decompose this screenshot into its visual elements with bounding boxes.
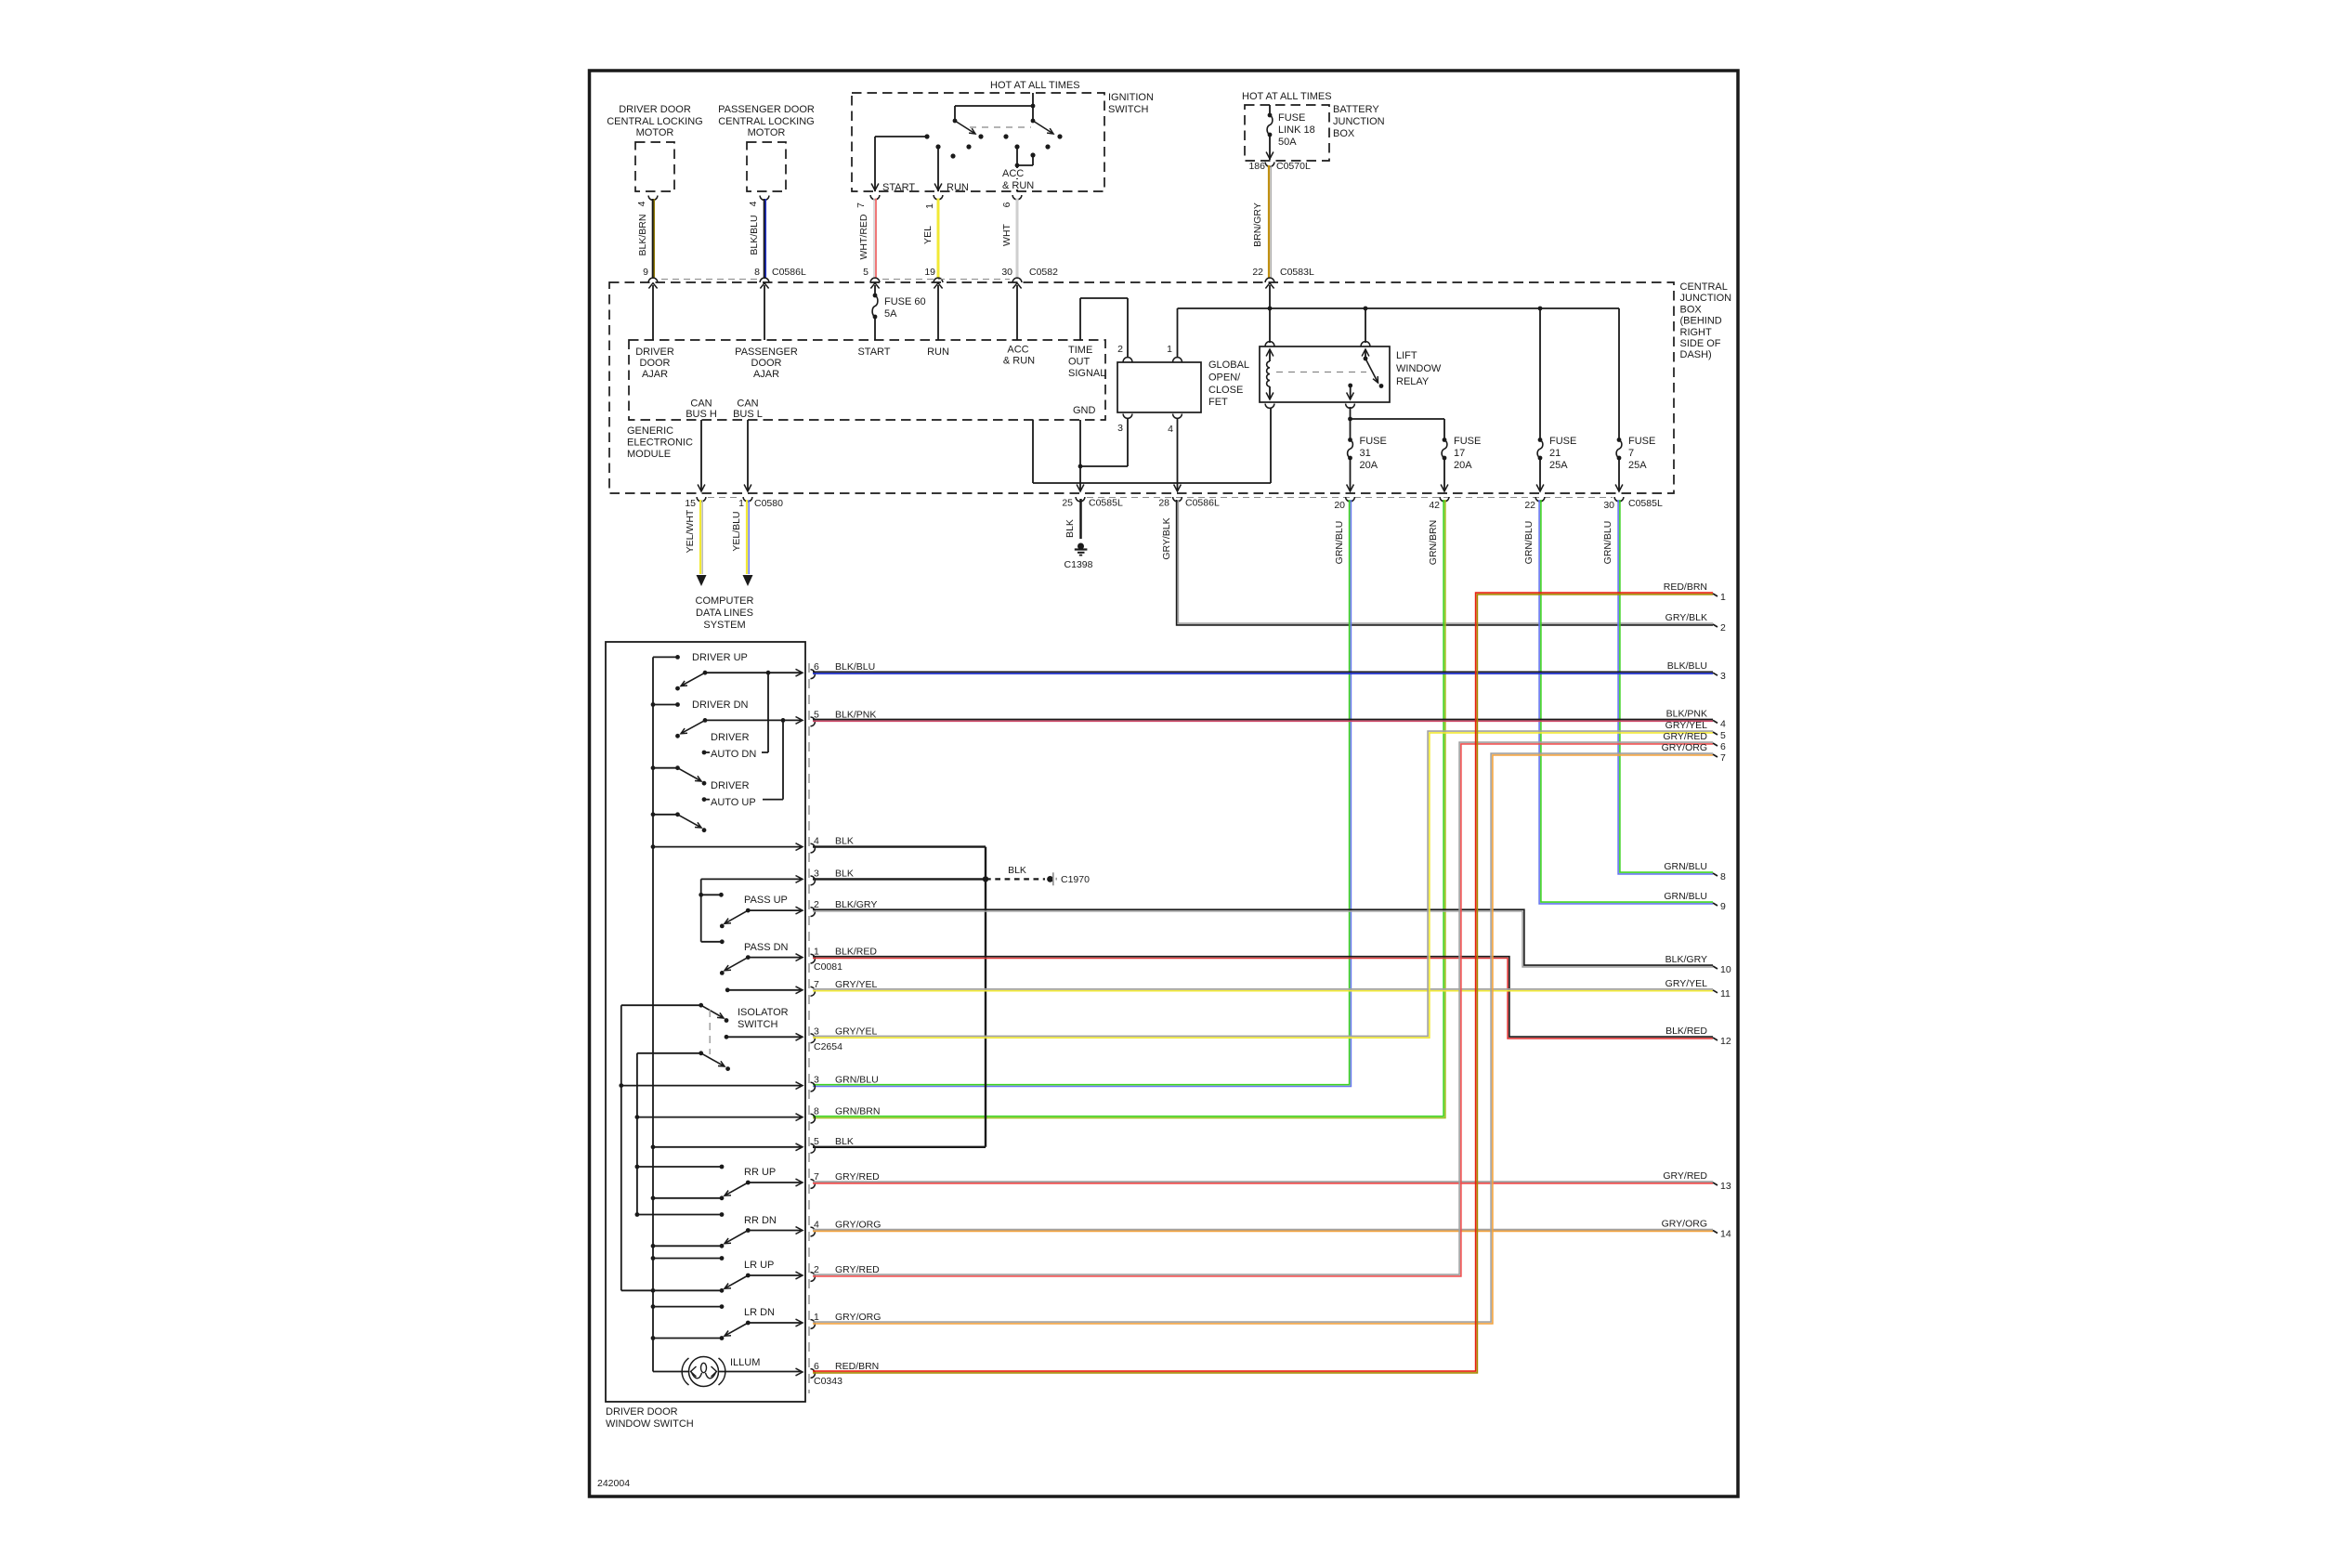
svg-text:AJAR: AJAR [642,369,668,380]
svg-text:PASSENGER: PASSENGER [735,346,798,358]
svg-text:GRY/RED: GRY/RED [835,1264,880,1275]
svg-text:FUSE: FUSE [1628,436,1655,447]
svg-text:8: 8 [1720,871,1726,882]
svg-text:JUNCTION: JUNCTION [1333,116,1385,127]
svg-text:C0585L: C0585L [1628,498,1663,509]
bus A [652,657,654,1371]
wire acc&run [1016,285,1018,340]
wire FET pin1 from bus [1177,308,1179,357]
svg-text:COMPUTER: COMPUTER [696,595,754,607]
mechanical link dashes [970,126,1031,128]
svg-text:GRN/BLU: GRN/BLU [1664,891,1707,902]
svg-text:ACC: ACC [1002,168,1024,179]
svg-text:10: 10 [1720,964,1731,975]
svg-text:9: 9 [643,267,648,278]
central junction box outline [609,282,1674,493]
wire relay coil return to GEM [1270,408,1272,484]
svg-text:BLK/RED: BLK/RED [835,947,877,958]
CJB bottom pin 30 connector [1614,497,1624,502]
svg-text:2: 2 [1720,622,1726,634]
svg-text:DRIVER: DRIVER [711,732,750,743]
svg-text:OPEN/: OPEN/ [1208,372,1241,384]
output 3 GRY/YEL C2654 [725,1035,729,1039]
svg-text:C1398: C1398 [1064,559,1093,570]
svg-text:4: 4 [814,836,819,847]
wire BRN/GRY into bus and relay coil [1269,285,1271,343]
switch output pin 2 BLK/GRY [811,908,816,917]
svg-text:14: 14 [1720,1229,1731,1240]
svg-text:GRY/YEL: GRY/YEL [835,979,877,990]
svg-text:DATA LINES: DATA LINES [696,608,753,619]
svg-text:BLK: BLK [1064,519,1076,538]
CJB top pin 22 connector [1265,278,1274,282]
svg-text:CENTRAL: CENTRAL [1680,281,1728,293]
svg-text:BLK/BRN: BLK/BRN [637,215,648,256]
svg-text:6: 6 [814,1361,819,1372]
svg-text:CAN: CAN [690,399,712,410]
wire YEL/WHT [699,500,701,574]
svg-text:LIFT: LIFT [1396,350,1417,361]
svg-text:DOOR: DOOR [640,358,671,369]
svg-text:GRY/ORG: GRY/ORG [1662,742,1707,753]
svg-text:4: 4 [1168,424,1173,435]
svg-text:BUS L: BUS L [733,409,763,420]
CJB bottom pin 20 connector [1346,497,1355,502]
svg-text:FUSE: FUSE [1278,112,1305,124]
svg-text:50A: 50A [1278,137,1297,148]
CJB top pin 19 connector [934,278,943,282]
wire BLK/BRN pin4->pin9 [652,199,655,278]
svg-text:31: 31 [1360,448,1371,459]
svg-text:FET: FET [1208,397,1228,408]
svg-text:C0585L: C0585L [1089,498,1123,509]
CJB top pin 9 connector [648,278,658,282]
svg-text:YEL: YEL [922,226,934,244]
svg-text:1: 1 [1720,592,1726,603]
driver door window switch box [606,642,805,1402]
svg-text:3: 3 [1720,671,1726,682]
driver auto up switch [651,765,656,770]
svg-text:GRN/BLU: GRN/BLU [1602,521,1613,565]
global open/close FET [1117,362,1201,412]
computer data lines arrows [697,575,707,586]
svg-text:MOTOR: MOTOR [748,127,786,138]
svg-text:GRY/YEL: GRY/YEL [1665,720,1707,731]
svg-text:BLK: BLK [835,1136,854,1147]
wire 6 RED/BRN to terminal 1 [813,593,1713,1371]
svg-text:22: 22 [1252,267,1263,278]
start wire [875,136,927,137]
svg-text:242004: 242004 [597,1478,630,1489]
wire GRN/BRN pin42 [813,500,1445,1118]
CJB top pin 30 connector [1012,278,1022,282]
svg-text:1: 1 [1167,344,1172,355]
svg-text:PASS UP: PASS UP [744,895,788,906]
switch output pin 5 BLK [811,1143,816,1153]
svg-text:C0586L: C0586L [1185,498,1220,509]
wire GRY/BLK pin28 to terminal 2 [1178,500,1713,623]
svg-text:GRY/BLK: GRY/BLK [1161,517,1172,559]
wire 3 GRY/YEL to terminal 5 [813,731,1713,1036]
wire CAN BUS H down [700,420,702,491]
svg-text:GRY/BLK: GRY/BLK [1665,612,1707,623]
svg-text:GRN/BLU: GRN/BLU [1664,861,1707,872]
svg-text:GRY/ORG: GRY/ORG [1662,1219,1707,1230]
wire GRN/BLU pin30 to terminal 8 [1620,500,1713,872]
svg-text:RR DN: RR DN [744,1215,777,1226]
svg-text:2: 2 [814,1264,819,1275]
svg-text:4: 4 [748,201,759,206]
wire WHT [1016,199,1019,279]
svg-text:22: 22 [1524,500,1535,511]
wire YEL/BLU [746,500,748,574]
switch output pin 1 GRY/ORG [811,1320,816,1329]
power bus [1178,307,1620,309]
svg-text:SIGNAL: SIGNAL [1068,368,1105,379]
svg-text:PASS DN: PASS DN [744,942,789,953]
wire GRN/BLU pin20 [813,500,1351,1087]
svg-text:GRN/BLU: GRN/BLU [1523,521,1535,565]
svg-text:C0583L: C0583L [1280,267,1314,278]
svg-text:20A: 20A [1454,460,1472,471]
generic electronic module box [629,340,1105,420]
svg-text:BATTERY: BATTERY [1333,104,1379,115]
svg-text:SYSTEM: SYSTEM [703,620,745,631]
svg-text:CAN: CAN [737,399,758,410]
svg-text:FUSE: FUSE [1549,436,1576,447]
svg-text:186: 186 [1248,161,1265,172]
svg-text:4: 4 [814,1220,819,1231]
fuse 21 25A [1539,308,1541,440]
svg-text:BLK/GRY: BLK/GRY [835,899,877,910]
svg-text:CLOSE: CLOSE [1208,385,1243,396]
svg-text:C2654: C2654 [814,1041,842,1052]
svg-text:30: 30 [1001,267,1012,278]
wire FET pin4 down pin28 [1177,418,1179,491]
svg-text:12: 12 [1720,1036,1731,1047]
wire BRN/GRY [1268,165,1270,278]
svg-text:JUNCTION: JUNCTION [1680,293,1732,304]
svg-text:GRY/RED: GRY/RED [1663,731,1707,742]
connector dashed line [808,663,810,1393]
border frame [590,71,1739,1496]
svg-text:(BEHIND: (BEHIND [1680,316,1722,327]
svg-text:6: 6 [814,661,819,673]
wire WHT/RED [873,199,875,279]
wire 3 BLK to C1970 [813,878,986,880]
CJB top pin 8 connector [760,278,769,282]
svg-text:25A: 25A [1628,460,1647,471]
svg-text:SIDE OF: SIDE OF [1680,338,1721,349]
fuse 7 25A [1618,308,1620,440]
svg-text:HOT AT ALL TIMES: HOT AT ALL TIMES [1242,91,1332,102]
switch output pin 3 GRY/YEL [811,1034,816,1043]
CJB bottom pin 1 connector [743,497,752,502]
svg-text:DRIVER: DRIVER [711,780,750,791]
svg-text:5: 5 [1720,730,1726,741]
wire 4 GRY/ORG to terminal 14 [813,1229,1713,1231]
svg-text:7: 7 [1720,752,1726,764]
svg-text:11: 11 [1720,988,1731,1000]
ignition contacts [924,134,929,138]
output 7 GRY/YEL contact [725,987,730,992]
CJB bottom pin 22 connector [1535,497,1545,502]
svg-text:6: 6 [1001,202,1012,207]
svg-text:C1970: C1970 [1061,874,1090,885]
relay switch [1365,308,1366,343]
svg-text:GLOBAL: GLOBAL [1208,359,1249,371]
svg-text:BRN/GRY: BRN/GRY [1252,203,1263,247]
svg-text:TIME: TIME [1068,345,1092,356]
switch output pin 6 RED/BRN [811,1369,816,1379]
svg-text:GENERIC: GENERIC [627,425,673,437]
svg-text:IGNITION: IGNITION [1108,92,1154,103]
svg-text:DRIVER DOOR: DRIVER DOOR [606,1406,678,1418]
wire run [937,285,939,340]
wire driver ajar [652,285,654,340]
svg-text:21: 21 [1549,448,1561,459]
svg-text:GRY/RED: GRY/RED [835,1171,880,1183]
switch output pin 3 GRN/BLU [811,1082,816,1091]
svg-text:C0570L: C0570L [1276,161,1311,172]
wire GND to pin25 [1079,420,1081,491]
svg-text:BLK/PNK: BLK/PNK [1666,708,1707,719]
svg-text:CENTRAL LOCKING: CENTRAL LOCKING [718,116,815,127]
output 8 GRN/BRN [635,1115,640,1119]
svg-text:DRIVER UP: DRIVER UP [692,652,748,663]
output 4 BLK [651,844,656,849]
svg-text:5: 5 [863,267,869,278]
output 3 GRN/BLU [619,1083,623,1088]
wire 2 GRY/RED to terminal 6 [813,742,1713,1274]
acc&run wire [1016,147,1018,191]
svg-text:GRN/BRN: GRN/BRN [1428,520,1439,565]
svg-text:GRY/ORG: GRY/ORG [835,1312,881,1323]
svg-text:GRY/ORG: GRY/ORG [835,1220,881,1231]
svg-text:OUT: OUT [1068,357,1091,368]
switch output pin 7 GRY/RED [811,1180,816,1189]
svg-text:DRIVER DN: DRIVER DN [692,699,749,711]
wire 7 GRY/RED to terminal 13 [813,1181,1713,1183]
svg-text:MODULE: MODULE [627,449,671,460]
wire start + fuse 60 5A [874,285,876,295]
svg-text:ISOLATOR: ISOLATOR [738,1007,789,1018]
svg-text:ACC: ACC [1007,345,1028,356]
svg-text:START: START [882,182,915,193]
svg-text:SWITCH: SWITCH [1108,104,1148,115]
relay coil [1266,349,1273,357]
svg-text:2: 2 [814,899,819,910]
svg-text:28: 28 [1158,498,1169,509]
wire BLK to ground [1079,499,1082,539]
wire BLK/BLU pin4->pin8 C0586L [764,199,766,278]
switch output pin 1 BLK/RED [811,954,816,963]
relay output to fuses [1350,407,1352,440]
svg-text:19: 19 [924,267,935,278]
svg-text:BUS H: BUS H [686,409,717,420]
svg-text:FUSE: FUSE [1454,436,1481,447]
wire time out signal [1079,298,1081,340]
svg-text:AUTO DN: AUTO DN [711,749,756,760]
wire 1 BLK/RED to terminal 12 [813,957,1713,1037]
svg-text:CENTRAL LOCKING: CENTRAL LOCKING [607,116,703,127]
fuse 17 20A [1443,438,1447,442]
svg-text:GRY/YEL: GRY/YEL [835,1026,877,1037]
svg-text:SWITCH: SWITCH [738,1019,777,1030]
output 5 BLK [651,1144,656,1149]
svg-text:GRY/YEL: GRY/YEL [1665,978,1707,989]
svg-text:BLK/PNK: BLK/PNK [835,709,876,720]
wire 5 BLK/PNK to terminal 4 [813,719,1713,721]
driver auto dn contact [702,751,707,755]
svg-text:FUSE: FUSE [1360,436,1387,447]
svg-text:BLK/GRY: BLK/GRY [1665,954,1707,965]
wire 2 BLK/GRY to terminal 10 [813,909,1713,965]
svg-text:BLK/BLU: BLK/BLU [835,661,875,673]
svg-text:RUN: RUN [947,182,969,193]
ignition output connectors [870,195,880,200]
svg-text:BLK: BLK [835,868,854,879]
CJB bottom pin 42 connector [1440,497,1449,502]
svg-text:RIGHT: RIGHT [1680,327,1713,338]
bus C [636,1053,638,1215]
svg-text:FUSE 60: FUSE 60 [884,296,926,307]
wire FET pin3 to gnd [1127,418,1129,466]
ground symbol C1398 [1078,543,1084,550]
svg-text:C0081: C0081 [814,961,842,973]
svg-text:LINK 18: LINK 18 [1278,124,1315,136]
connector group dashed lines [661,279,757,281]
svg-text:DRIVER: DRIVER [635,346,674,358]
output 3 BLK [701,878,802,880]
svg-text:BOX: BOX [1680,304,1703,315]
fuse link 18 50A [1269,105,1271,115]
svg-text:9: 9 [1720,901,1726,912]
svg-text:5: 5 [814,1136,819,1147]
svg-text:30: 30 [1603,500,1614,511]
svg-text:15: 15 [685,498,696,509]
svg-text:3: 3 [814,868,819,879]
svg-text:DRIVER DOOR: DRIVER DOOR [619,104,691,115]
svg-text:RR UP: RR UP [744,1167,776,1178]
svg-text:1: 1 [738,498,744,509]
svg-text:PASSENGER DOOR: PASSENGER DOOR [718,104,815,115]
switch output pin 5 BLK/PNK [811,717,816,726]
svg-text:13: 13 [1720,1181,1731,1192]
run wire [937,147,939,191]
spare switch [651,812,656,817]
CJB bottom pin 28 connector [1173,497,1182,502]
svg-text:C0582: C0582 [1029,267,1058,278]
svg-text:BLK/BLU: BLK/BLU [749,215,760,255]
ignition switch arm 1 [955,121,975,134]
svg-text:WINDOW: WINDOW [1396,363,1442,374]
svg-text:ILLUM: ILLUM [730,1357,760,1368]
bus B [620,1005,622,1290]
svg-text:3: 3 [814,1026,819,1037]
svg-text:AJAR: AJAR [753,369,779,380]
svg-text:1: 1 [814,1312,819,1323]
svg-text:BLK/RED: BLK/RED [1665,1026,1707,1037]
switch output pin 4 GRY/ORG [811,1227,816,1236]
svg-text:7: 7 [856,203,867,208]
svg-text:20: 20 [1334,500,1345,511]
svg-text:17: 17 [1454,448,1465,459]
svg-text:MOTOR: MOTOR [636,127,674,138]
switch output pin 8 GRN/BRN [811,1114,816,1123]
wire 1 GRY/ORG to terminal 7 [813,753,1713,1322]
svg-text:2: 2 [1117,344,1123,355]
svg-text:START: START [857,346,890,358]
wire 7 GRY/YEL to terminal 11 [813,988,1713,990]
svg-text:WHT/RED: WHT/RED [858,214,869,259]
wire hot feed [1032,93,1034,106]
svg-text:1: 1 [814,947,819,958]
driver up switch [653,656,678,658]
svg-text:6: 6 [1720,741,1726,752]
svg-text:ELECTRONIC: ELECTRONIC [627,438,693,449]
svg-text:25A: 25A [1549,460,1568,471]
svg-text:3: 3 [814,1075,819,1086]
wire YEL [937,199,940,279]
switch output pin 2 GRY/RED [811,1273,816,1282]
svg-text:BOX: BOX [1333,128,1355,139]
svg-text:GRN/BRN: GRN/BRN [835,1106,880,1117]
wire 6 BLK/BLU to terminal 3 [813,671,1713,673]
CJB top pin 5 connector [870,278,880,282]
svg-text:GRY/RED: GRY/RED [1663,1170,1707,1182]
switch output pin 3 BLK [811,876,816,885]
svg-text:RELAY: RELAY [1396,376,1430,387]
svg-text:BLK: BLK [1008,865,1026,876]
svg-text:& RUN: & RUN [1003,356,1035,367]
svg-text:BLK: BLK [835,836,854,847]
svg-text:DOOR: DOOR [751,358,782,369]
CJB bottom pin 25 connector [1076,497,1085,502]
svg-text:7: 7 [814,1171,819,1183]
svg-text:1: 1 [924,203,935,209]
svg-text:C0586L: C0586L [772,267,806,278]
svg-text:& RUN: & RUN [1002,180,1034,191]
svg-text:RUN: RUN [927,346,949,358]
svg-text:GND: GND [1073,405,1096,416]
svg-text:C0580: C0580 [754,498,783,509]
svg-text:YEL/BLU: YEL/BLU [731,511,742,551]
switch output pin 6 BLK/BLU [811,670,816,679]
svg-text:5: 5 [814,709,819,720]
fuse 31 20A [1348,438,1352,442]
driver dn switch [651,702,656,707]
svg-text:DASH): DASH) [1680,349,1712,360]
svg-text:3: 3 [1117,423,1123,434]
svg-text:HOT AT ALL TIMES: HOT AT ALL TIMES [990,80,1080,91]
wire GRN/BLU pin22 to terminal 9 [1541,500,1713,902]
wire passenger ajar [764,285,765,340]
svg-text:7: 7 [1628,448,1634,459]
svg-text:4: 4 [636,201,647,206]
svg-text:7: 7 [814,979,819,990]
svg-text:WINDOW SWITCH: WINDOW SWITCH [606,1418,694,1430]
svg-text:5A: 5A [884,308,897,320]
isolator pole 2 [637,1052,701,1054]
svg-text:8: 8 [754,267,760,278]
svg-text:GRN/BLU: GRN/BLU [1334,521,1345,565]
svg-text:BLK/BLU: BLK/BLU [1667,660,1707,672]
svg-text:WHT: WHT [1001,223,1012,245]
svg-text:4: 4 [1720,718,1726,729]
switch output pin 4 BLK [811,843,816,853]
lift window relay [1260,346,1390,402]
